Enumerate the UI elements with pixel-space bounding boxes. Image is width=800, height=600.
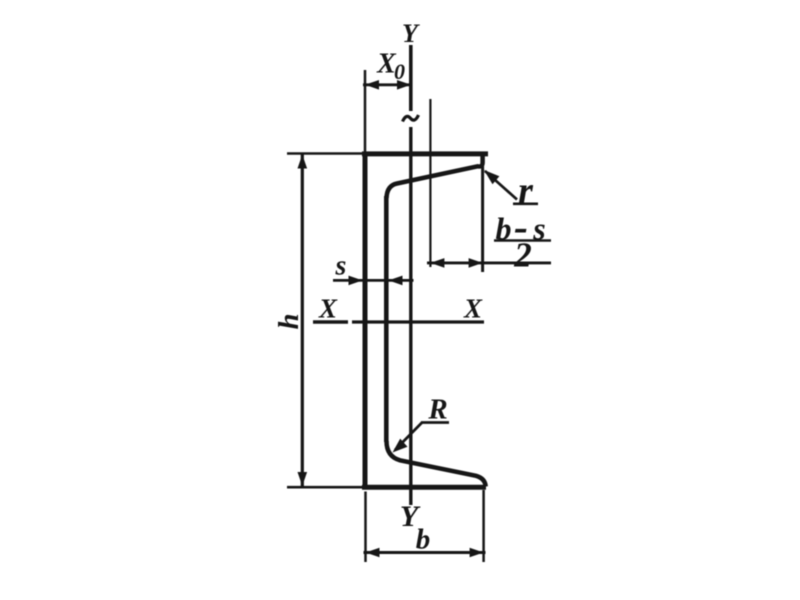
leader r: arrowhead <box>484 170 499 184</box>
dimension X0: dimension line <box>363 83 413 86</box>
dimension s: dimension line <box>333 279 414 282</box>
dimension (b-s)/2: left extension line <box>429 99 431 267</box>
Y axis lower segment <box>409 127 412 505</box>
svg-text:2: 2 <box>513 236 532 275</box>
bottom flange outer edge <box>362 485 486 490</box>
svg-text:Y: Y <box>400 500 421 533</box>
leader r: shelf <box>513 202 538 205</box>
dimension b: right arrow <box>470 548 484 558</box>
Y axis upper segment <box>409 45 413 111</box>
dimension s: right arrow (outside, pointing left) <box>389 276 403 286</box>
dimension b: right extension line <box>482 490 485 562</box>
dimension h: bottom arrow <box>298 472 308 486</box>
channel section outline <box>362 152 488 490</box>
dimension X0: right arrow <box>397 80 411 90</box>
dimension b: left arrow <box>366 548 380 558</box>
dimension (b-s)/2: right extension line (toe edge extended) <box>481 166 484 272</box>
dimension b: dimension line <box>364 551 486 554</box>
fraction bar <box>494 239 551 242</box>
leader R: shelf <box>421 421 449 424</box>
svg-text:s: s <box>335 251 347 282</box>
leader r: diagonal <box>485 171 517 200</box>
dimension h: top arrow <box>298 155 308 169</box>
web inner face <box>384 196 389 442</box>
bottom flange inner sloped face <box>387 441 486 487</box>
dimension (b-s)/2: dimension line <box>427 261 551 264</box>
svg-text:h: h <box>273 313 305 329</box>
dimension h: top extension line <box>287 152 362 155</box>
top flange outer edge <box>362 151 488 156</box>
X axis main segment <box>352 320 484 323</box>
Y axis break tilde <box>403 115 419 122</box>
dimension s: left arrow (outside, pointing right) <box>349 276 363 286</box>
dimension (b-s)/2: left arrow <box>430 258 444 268</box>
leader R: arrowhead <box>393 439 408 453</box>
svg-text:X: X <box>318 294 338 324</box>
svg-text:X: X <box>463 294 483 324</box>
dimension h: bottom extension line <box>287 486 362 489</box>
dimension h: dimension line <box>301 153 304 487</box>
top flange toe edge and inner sloped face <box>387 152 483 198</box>
web outer face <box>363 152 368 490</box>
dimension b: left extension line <box>364 492 367 563</box>
dimension X0: extension line <box>364 70 367 152</box>
svg-text:Y: Y <box>402 19 420 48</box>
dimension X0: left arrow <box>365 80 379 90</box>
svg-text:R: R <box>427 394 447 426</box>
leader R: diagonal <box>395 423 422 451</box>
svg-text:0: 0 <box>394 59 405 84</box>
X axis left segment with underline of left X <box>313 320 348 324</box>
dimension (b-s)/2: right arrow <box>469 258 483 268</box>
